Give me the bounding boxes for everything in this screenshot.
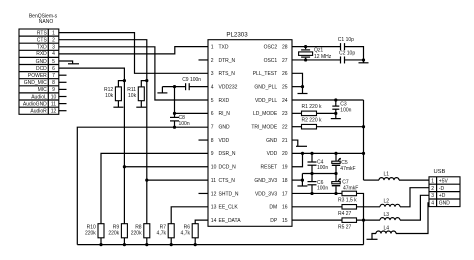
node PLL ground junction <box>301 85 304 88</box>
resistor R6 4,7k <box>181 224 199 245</box>
svg-text:13: 13 <box>211 205 217 211</box>
svg-text:EE_CLK: EE_CLK <box>219 205 239 211</box>
node CTS net junction at U1 pin11 <box>145 179 148 182</box>
svg-text:11: 11 <box>51 102 56 108</box>
svg-text:GND_PLL: GND_PLL <box>254 84 277 90</box>
svg-text:POWER: POWER <box>28 73 47 79</box>
svg-text:220k: 220k <box>108 231 119 237</box>
wire J1-12 AudioR stub <box>59 110 67 112</box>
svg-text:AudioR: AudioR <box>30 109 47 115</box>
svg-text:USB: USB <box>433 169 445 175</box>
svg-text:220k: 220k <box>85 231 96 237</box>
svg-text:CTS_N: CTS_N <box>219 178 236 184</box>
node crystal top on OSC2 <box>304 45 307 48</box>
svg-text:R5 27: R5 27 <box>338 225 352 231</box>
resistor R1 220 k on LD_MODE <box>292 104 336 115</box>
connector J1 title BenQSiem-s NANO <box>29 13 58 25</box>
svg-text:100n: 100n <box>317 186 328 192</box>
svg-text:VDD_3V3: VDD_3V3 <box>255 191 277 197</box>
wire L3 to USB pin3 <box>400 195 429 220</box>
node RESET to VDD <box>301 152 304 155</box>
wire VDD_3V3 net: U1 pin17 to R3 <box>292 192 342 194</box>
wire L2 to USB pin2 <box>400 188 429 207</box>
resistor R3 1,5 k <box>338 191 364 220</box>
svg-text:25: 25 <box>282 84 288 90</box>
ground at C9 left <box>157 87 167 93</box>
wire C1/C2 right side join <box>345 47 364 60</box>
wire GND_PLL net: U1 pin25 stub <box>292 86 303 88</box>
node DCD net junction at U1 pin10 <box>123 165 126 168</box>
svg-text:4,7k: 4,7k <box>181 231 191 237</box>
svg-text:10: 10 <box>211 165 217 171</box>
wire OSC1 net: U1 pin27 to C2 <box>292 59 341 61</box>
wire TXD net: J1-3 to U1 pin5 RXD <box>59 47 208 100</box>
svg-text:PLL_TEST: PLL_TEST <box>253 71 277 77</box>
svg-text:RI_N: RI_N <box>219 111 231 117</box>
node C6 bottom on VDD_3V3 <box>310 192 313 195</box>
node C4/C6 junction on line A <box>310 172 313 175</box>
svg-text:Qz1: Qz1 <box>314 47 323 53</box>
svg-text:C1 10p: C1 10p <box>338 37 354 43</box>
svg-text:PL2303: PL2303 <box>226 31 248 38</box>
svg-text:GND: GND <box>266 138 278 144</box>
svg-text:2: 2 <box>52 38 55 44</box>
wire RXD net: J1-4 to U1 pin1 TXD <box>59 47 208 54</box>
connector USB pin numbers <box>431 178 434 206</box>
node GND_3V3 junction <box>301 179 304 182</box>
resistor R9 220k <box>108 224 127 245</box>
ground at PLL <box>298 93 308 95</box>
wire OSC2 net: U1 pin28 to C1 <box>292 46 341 48</box>
node C7 bottom on VDD_3V3 <box>334 192 337 195</box>
U1 left pin names <box>219 44 242 224</box>
wire VDD_PLL net: U1 pin24 to VDD vertical <box>292 99 364 101</box>
svg-text:9: 9 <box>211 151 214 157</box>
op-amp U1 PL2303 body <box>208 31 292 226</box>
svg-text:RXD: RXD <box>219 98 230 104</box>
connector J1 pin names <box>23 30 48 114</box>
wire RI_N net: U1 pin6 to C8 node <box>175 112 209 114</box>
wire U1 pin21 GND hook <box>292 140 307 146</box>
svg-text:R4 27: R4 27 <box>338 211 352 217</box>
node rail junction R7 <box>170 243 173 246</box>
wire RESET net: U1 pin19 up to VDD <box>292 153 303 166</box>
wire VDD net: U1 pin20 to VDD vertical <box>292 152 364 154</box>
svg-text:27: 27 <box>282 58 288 64</box>
wire DCD net horizontal into U1 pin10 DCD_N <box>124 166 208 168</box>
svg-text:12 MHz: 12 MHz <box>314 54 332 60</box>
resistor R10 220k <box>85 224 104 245</box>
capacitor C8 100n <box>170 87 190 128</box>
svg-text:100n: 100n <box>317 165 328 171</box>
node rail junction R9 <box>123 243 126 246</box>
wire mid junction line A <box>302 173 336 175</box>
ground at GND_3V3 <box>297 180 307 186</box>
resistor R5 27 <box>338 218 380 231</box>
svg-text:10k: 10k <box>128 93 137 99</box>
wire DM net: U1 pin16 to R4 <box>292 206 342 208</box>
node R2 to VDD vertical <box>362 125 365 128</box>
wire J1-7 POWER stub <box>59 74 67 76</box>
svg-text:VDD_PLL: VDD_PLL <box>255 98 277 104</box>
node R1/C3 junction <box>334 112 337 115</box>
svg-text:SHTD_N: SHTD_N <box>219 191 239 197</box>
svg-text:1: 1 <box>431 178 434 184</box>
resistor R11 10k <box>127 81 147 108</box>
svg-text:15: 15 <box>282 218 288 224</box>
U1 pin 12 SHTD_N stub <box>199 192 209 194</box>
wire DP junction down to ground rail <box>363 220 365 244</box>
node RI_N/C8 junction <box>173 112 176 115</box>
wire CTS net horizontal into U1 pin11 CTS_N <box>147 179 208 181</box>
connector J1 body (12-pin table) <box>19 29 59 114</box>
svg-text:3: 3 <box>52 45 55 51</box>
node VDD/pin20 junction <box>362 152 365 155</box>
svg-text:7: 7 <box>52 73 55 79</box>
inductor L1 <box>379 171 399 180</box>
U1 right pin names <box>251 44 278 224</box>
svg-text:VDD: VDD <box>267 151 278 157</box>
resistor R12 10k <box>104 81 124 108</box>
svg-text:220k: 220k <box>131 231 142 237</box>
svg-text:14: 14 <box>211 218 217 224</box>
svg-text:47mkF: 47mkF <box>343 185 358 191</box>
svg-text:TRI_MODE: TRI_MODE <box>251 125 278 131</box>
wire J1-9 MIC stub <box>59 88 67 90</box>
svg-text:5: 5 <box>211 98 214 104</box>
crystal Qz1 12 MHz <box>299 47 332 60</box>
svg-text:RXD: RXD <box>36 51 47 57</box>
svg-text:DCD: DCD <box>36 66 47 72</box>
wire GND net into U1 pin7 <box>77 127 208 244</box>
svg-text:L3: L3 <box>384 212 390 218</box>
wire VDD vertical rail <box>363 100 365 180</box>
wire GND_3V3 net: U1 pin18 <box>292 179 302 181</box>
svg-text:TXD: TXD <box>37 45 47 51</box>
svg-text:GND: GND <box>219 125 231 131</box>
node C5/C7 junction on line A <box>334 172 337 175</box>
svg-text:4,7k: 4,7k <box>157 231 167 237</box>
svg-text:3: 3 <box>211 71 214 77</box>
svg-text:DTR_N: DTR_N <box>219 58 236 64</box>
wire DCD net: J1-6 down through R12 tap to U1 pin10 and R9 <box>59 68 125 224</box>
svg-text:3: 3 <box>431 193 434 199</box>
svg-text:20: 20 <box>282 151 288 157</box>
svg-text:12: 12 <box>211 191 217 197</box>
wire J1-11 AudioGND stub <box>59 103 67 105</box>
svg-text:22: 22 <box>282 125 288 131</box>
node DP/R3 junction <box>362 219 365 222</box>
U1 left pin numbers <box>211 44 217 224</box>
wire EE_DATA net: U1 pin14 to R6 <box>195 220 208 224</box>
capacitor C9 100n on U1 pin4 VDD232 <box>162 77 208 90</box>
svg-text:DCD_N: DCD_N <box>219 165 237 171</box>
svg-text:L1: L1 <box>384 171 390 177</box>
svg-text:RTS_N: RTS_N <box>219 71 236 77</box>
svg-text:CTS: CTS <box>37 38 48 44</box>
svg-text:DP: DP <box>270 218 278 224</box>
resistor R8 220k <box>131 224 150 245</box>
svg-text:5: 5 <box>52 59 55 65</box>
node rail junction R10 <box>99 243 102 246</box>
svg-text:4: 4 <box>431 201 434 207</box>
svg-text:MIC: MIC <box>38 87 48 93</box>
svg-text:AudioL: AudioL <box>31 94 47 100</box>
svg-text:C9 100n: C9 100n <box>182 77 201 83</box>
svg-text:+5V: +5V <box>439 178 449 184</box>
connector J1 pin numbers 1-12 <box>51 30 57 114</box>
svg-text:DM: DM <box>269 205 277 211</box>
capacitor C4 100n <box>308 153 329 173</box>
svg-text:TXD: TXD <box>219 44 229 50</box>
svg-text:8: 8 <box>52 80 55 86</box>
svg-text:17: 17 <box>282 191 288 197</box>
svg-text:11: 11 <box>211 178 216 184</box>
svg-text:VDD: VDD <box>219 138 230 144</box>
svg-text:100n: 100n <box>179 121 190 127</box>
capacitor C7 47mkF (polarized) <box>332 174 358 194</box>
capacitor C5 47mkF (polarized) <box>332 153 356 173</box>
ground at L4 <box>367 234 378 240</box>
svg-text:LD_MODE: LD_MODE <box>253 111 278 117</box>
svg-text:1: 1 <box>211 44 214 50</box>
node rail junction R8 <box>145 243 148 246</box>
svg-text:6: 6 <box>52 66 55 72</box>
svg-text:+D: +D <box>439 193 446 199</box>
svg-text:8: 8 <box>211 138 214 144</box>
capacitor C6 100n <box>308 174 329 194</box>
svg-text:24: 24 <box>282 98 288 104</box>
wire VDD to L1 <box>364 179 380 181</box>
svg-text:GND_MIC: GND_MIC <box>24 80 47 86</box>
svg-text:AudioGND: AudioGND <box>23 102 47 108</box>
U1 right pin numbers <box>282 44 288 224</box>
svg-text:DSR_N: DSR_N <box>219 151 236 157</box>
svg-text:16: 16 <box>282 205 288 211</box>
svg-text:21: 21 <box>282 138 288 144</box>
wire J1-10 AudioL stub <box>59 96 67 98</box>
wire PLL_TEST net: U1 pin26 down to pin25 <box>292 73 303 93</box>
node C5 top on VDD <box>334 152 337 155</box>
svg-text:GND: GND <box>36 59 48 65</box>
svg-text:7: 7 <box>211 125 214 131</box>
svg-text:L4: L4 <box>384 225 390 231</box>
svg-text:L2: L2 <box>384 199 390 205</box>
svg-text:C2 10p: C2 10p <box>339 51 355 57</box>
node C3 tap on VDD_PLL <box>334 98 337 101</box>
ground at J1-5 GND <box>59 61 79 64</box>
svg-text:9: 9 <box>52 87 55 93</box>
svg-text:6: 6 <box>211 111 214 117</box>
svg-text:R3 1,5 k: R3 1,5 k <box>338 198 357 204</box>
svg-text:-D: -D <box>439 186 445 192</box>
wire DP net: U1 pin15 to R5 <box>292 219 342 221</box>
svg-text:28: 28 <box>282 44 288 50</box>
node rail junction R6 <box>194 243 197 246</box>
svg-text:R2 220 k: R2 220 k <box>302 118 323 124</box>
svg-text:GND: GND <box>439 201 451 207</box>
node DCD/R12 junction <box>123 79 126 82</box>
capacitor C3 100n <box>332 100 351 118</box>
wire DSR net: U1 pin9 to R10 <box>101 153 208 223</box>
wire RTS net: J1-1 to U1 pin3 RTS_N <box>59 33 208 74</box>
node CTS/R11 junction <box>145 79 148 82</box>
svg-text:4: 4 <box>52 51 55 57</box>
svg-text:OSC1: OSC1 <box>264 58 278 64</box>
svg-text:1: 1 <box>52 30 55 36</box>
svg-text:GND_3V3: GND_3V3 <box>254 178 277 184</box>
U1 pin 2 DTR_N stub <box>199 59 209 61</box>
svg-text:2: 2 <box>431 186 434 192</box>
U1 pin 8 VDD stub <box>199 139 209 141</box>
svg-text:RESET: RESET <box>261 165 278 171</box>
node C8 to GND rail <box>173 126 176 129</box>
svg-text:23: 23 <box>282 111 288 117</box>
svg-text:VDD232: VDD232 <box>219 84 238 90</box>
svg-text:OSC2: OSC2 <box>264 44 278 50</box>
capacitor C2 10p <box>339 51 355 64</box>
svg-text:18: 18 <box>282 178 288 184</box>
svg-text:R1 220 k: R1 220 k <box>302 104 323 110</box>
resistor R4 27 <box>338 205 380 218</box>
wire J1-8 GND_MIC stub <box>59 81 67 83</box>
resistor R2 220 k on TRI_MODE <box>292 118 364 129</box>
resistor R7 4,7k <box>157 224 175 245</box>
svg-text:2: 2 <box>211 58 214 64</box>
svg-text:RTS: RTS <box>37 30 48 36</box>
svg-text:100n: 100n <box>340 107 351 113</box>
ground below C3 <box>331 118 341 120</box>
wire L1 to USB pin1 <box>399 179 429 181</box>
ground at oscillator <box>359 60 369 63</box>
inductor L3 <box>380 212 400 220</box>
svg-text:4: 4 <box>211 84 214 90</box>
node C9/C8 junction <box>173 85 176 88</box>
inductor L2 <box>380 199 400 207</box>
node C2 right junction <box>362 58 365 61</box>
connector USB body (4-pin table) <box>429 177 460 207</box>
svg-text:10: 10 <box>51 94 57 100</box>
wire CTS net: J1-2 down to U1 pin11 and R8 <box>59 40 147 224</box>
svg-text:47mkF: 47mkF <box>340 166 355 172</box>
wire L4 to USB pin4 <box>396 203 429 234</box>
svg-text:NANO: NANO <box>39 19 54 25</box>
svg-text:12: 12 <box>51 109 57 115</box>
node crystal bottom on OSC1 <box>304 58 307 61</box>
svg-text:26: 26 <box>282 71 288 77</box>
svg-text:EE_DATA: EE_DATA <box>219 218 242 224</box>
node C4 top on VDD <box>310 152 313 155</box>
svg-text:19: 19 <box>282 165 288 171</box>
wire bottom ground rail <box>77 244 363 246</box>
inductor L4 <box>376 225 396 233</box>
wire EE_CLK net: U1 pin13 to R7 <box>171 207 208 224</box>
capacitor C1 10p <box>338 37 354 50</box>
connector USB pin names <box>439 178 451 206</box>
svg-text:10k: 10k <box>105 93 114 99</box>
